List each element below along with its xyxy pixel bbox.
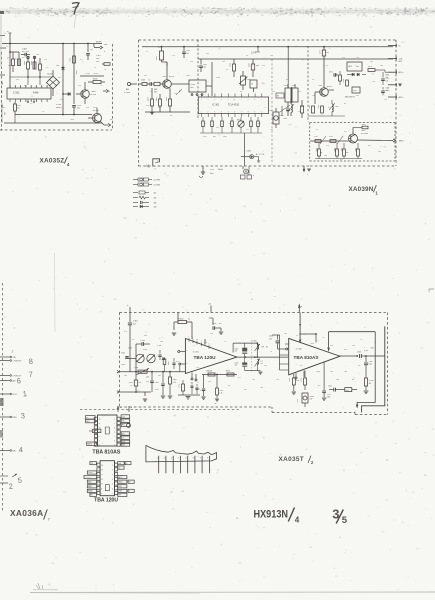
svg-text:TBA 120U: TBA 120U [94,497,118,503]
svg-text:2: 2 [112,470,113,472]
svg-text:12: 12 [101,474,103,476]
svg-text:5k6: 5k6 [258,123,261,125]
svg-text:L306: L306 [335,106,339,108]
svg-text:R311: R311 [335,73,337,77]
svg-text:R3: R3 [246,55,248,57]
svg-text:8: 8 [99,436,100,438]
svg-text:1k: 1k [296,335,298,337]
svg-text:5: 5 [186,458,187,460]
svg-text:C3: C3 [150,91,152,93]
svg-text:10k: 10k [146,377,149,379]
svg-text:12: 12 [99,419,101,421]
svg-text:10k: 10k [378,151,381,153]
svg-text:R305: R305 [165,97,167,101]
svg-text:n47: n47 [219,323,222,325]
svg-text:5k6: 5k6 [336,379,339,381]
svg-text:4: 4 [295,516,300,525]
svg-text:91,5kHz: 91,5kHz [124,92,130,94]
svg-text:22k: 22k [312,95,315,97]
svg-text:MIKR: MIKR [118,491,121,493]
svg-text:C317: C317 [269,110,273,112]
svg-text:4: 4 [67,162,70,168]
svg-text:22k: 22k [356,57,359,59]
svg-text:461: 461 [154,193,157,195]
svg-text:R3: R3 [300,365,302,367]
svg-text:C314: C314 [386,90,390,92]
svg-text:C 303: C 303 [140,340,145,342]
svg-text:7: 7 [114,445,115,447]
svg-text:C HORCUP: C HORCUP [13,360,22,362]
svg-text:b: b [131,407,132,409]
svg-text:n40: n40 [235,365,238,367]
svg-text:2n2: 2n2 [16,79,19,81]
svg-text:4: 4 [206,342,207,344]
svg-text:4: 4 [112,479,113,481]
svg-text:C302: C302 [186,50,190,52]
svg-text:C31: C31 [44,59,47,61]
svg-text:R313: R313 [368,66,372,68]
svg-text:C322: C322 [328,386,332,388]
svg-text:TBA 810AS: TBA 810AS [294,355,319,360]
svg-text:6048S: 6048S [56,107,62,109]
svg-text:+UB: +UB [118,463,121,465]
svg-text:TCA 4510: TCA 4510 [228,104,240,107]
svg-text:C3: C3 [312,79,314,81]
svg-text:R306: R306 [30,61,32,65]
svg-text:XA035T: XA035T [279,456,305,463]
svg-text:91,5: 91,5 [0,90,2,94]
svg-text:ELN: ELN [122,433,125,435]
svg-text:6: 6 [114,440,115,442]
svg-text:10n: 10n [203,67,206,69]
svg-text:1k: 1k [188,319,190,321]
svg-text:C306: C306 [248,63,250,67]
svg-text:R3: R3 [130,385,132,387]
svg-text:C3: C3 [286,111,288,113]
svg-text:RK1: RK1 [86,421,89,423]
svg-text:22k: 22k [276,379,279,381]
svg-text:2: 2 [318,340,319,342]
svg-text:MHZ 468 TR: MHZ 468 TR [345,97,355,99]
svg-text:C303: C303 [141,80,145,82]
svg-text:4: 4 [178,458,179,460]
svg-text:R3: R3 [277,96,279,98]
svg-text:470: 470 [342,57,345,59]
svg-text:10k: 10k [222,61,225,63]
svg-text:0,47: 0,47 [269,339,272,341]
svg-text:C307: C307 [155,389,159,391]
svg-text:XA035Z: XA035Z [40,157,65,164]
svg-text:79L477: 79L477 [93,73,99,75]
svg-text:7: 7 [112,493,113,495]
svg-text:R310: R310 [226,371,230,373]
svg-text:C31: C31 [90,49,93,51]
svg-text:KF 91: KF 91 [13,394,17,396]
svg-text:NF: NF [91,495,93,497]
svg-text:C318: C318 [314,136,318,138]
svg-text:470: 470 [60,99,63,101]
svg-text:1n5: 1n5 [216,127,219,129]
svg-text:100u: 100u [280,115,284,117]
svg-text:100n: 100n [70,119,74,121]
svg-text:R303: R303 [93,79,97,81]
svg-text:AF1 o: AF1 o [399,71,404,74]
svg-text:C308: C308 [283,118,287,120]
svg-text:1n5: 1n5 [252,379,255,381]
svg-text:R3: R3 [226,69,228,71]
svg-text:C312: C312 [386,78,390,80]
svg-text:MIF: MIF [118,495,121,497]
svg-text:4,7k: 4,7k [173,382,176,384]
svg-text:2: 2 [114,423,115,425]
svg-text:o: o [104,51,105,53]
svg-text:T3: T3 [322,337,324,339]
svg-text:XA036A: XA036A [10,508,43,518]
svg-text:4: 4 [114,432,115,434]
svg-text:HX913N: HX913N [254,508,289,520]
svg-text:0,1: 0,1 [238,377,241,379]
svg-text:C306: C306 [129,382,133,384]
svg-text:2: 2 [164,458,165,460]
svg-text:1k2: 1k2 [17,108,20,110]
svg-text:1n: 1n [148,80,150,82]
svg-text:IC 302: IC 302 [296,349,303,351]
svg-text:14: 14 [101,465,103,467]
svg-text:C3: C3 [46,67,48,69]
svg-text:R322: R322 [354,148,356,152]
svg-text:R319: R319 [315,148,317,152]
svg-text:T3: T3 [80,59,82,61]
svg-text:6: 6 [99,445,100,447]
svg-text:C311: C311 [196,389,200,391]
svg-text:10k: 10k [260,387,263,389]
svg-text:4u7: 4u7 [24,85,27,87]
svg-text:1,2k: 1,2k [220,393,223,395]
svg-text:5: 5 [361,410,362,412]
svg-text:R304: R304 [143,349,147,351]
svg-text:100n: 100n [316,371,320,373]
svg-text:C304: C304 [155,97,157,101]
svg-text:3: 3 [112,474,113,476]
svg-text:0,1: 0,1 [240,91,242,93]
svg-text:T30: T30 [15,57,17,60]
svg-text:470: 470 [86,107,89,109]
svg-text:AFC: AFC [349,65,353,68]
svg-text:C3: C3 [6,46,8,48]
svg-text:C31: C31 [384,99,387,101]
svg-text:4: 4 [129,491,130,493]
svg-text:1n5: 1n5 [284,333,287,335]
svg-text:462: 462 [154,198,157,200]
svg-text:10n: 10n [324,155,327,157]
svg-text:R31: R31 [368,145,371,147]
svg-text:n.c: n.c [86,417,88,419]
svg-text:100n: 100n [369,364,373,366]
svg-text:C 502: C 502 [13,92,20,95]
svg-text:R31: R31 [344,349,347,351]
svg-text:R 306: R 306 [369,380,374,382]
svg-text:22k: 22k [372,81,375,83]
svg-text:R301: R301 [69,58,71,62]
svg-text:4u7: 4u7 [244,389,247,391]
svg-text:R1: R1 [7,57,9,59]
svg-text:10n: 10n [270,55,273,57]
svg-text:C317: C317 [296,399,298,403]
svg-text:4,7: 4,7 [260,361,262,363]
svg-text:5k6: 5k6 [146,381,149,383]
svg-text:7: 7 [200,458,201,460]
svg-text:7: 7 [190,382,191,384]
svg-text:10k: 10k [160,341,163,343]
svg-text:150n: 150n [121,364,125,366]
svg-text:R307: R307 [229,63,231,67]
svg-text:L302: L302 [128,348,132,350]
svg-text:1n5: 1n5 [158,107,161,109]
svg-text:22k: 22k [228,123,231,125]
svg-text:10n: 10n [352,345,355,347]
svg-text:C310: C310 [319,50,321,54]
svg-text:C31: C31 [196,367,199,369]
svg-text:R31: R31 [176,361,179,363]
svg-text:Hz: Hz [266,347,268,349]
svg-text:R3: R3 [158,47,160,49]
svg-text:5k6: 5k6 [124,375,127,377]
svg-text:R312: R312 [220,390,224,392]
svg-text:10k: 10k [36,54,39,56]
svg-text:C315: C315 [203,136,207,138]
svg-text:C-HORCUP: C-HORCUP [85,477,92,479]
svg-text:56k: 56k [320,152,323,154]
svg-text:IL-OFW: IL-OFW [154,180,161,182]
svg-text:56k: 56k [344,371,347,373]
svg-text:R 302: R 302 [178,319,184,321]
svg-text:R3: R3 [358,365,360,367]
svg-text:10k: 10k [190,61,193,63]
svg-text:1k: 1k [298,111,300,113]
svg-text:8: 8 [187,363,188,365]
svg-text:10: 10 [101,484,103,486]
svg-text:R305: R305 [288,378,290,382]
svg-text:470: 470 [262,65,265,67]
svg-text:KF: KF [129,481,131,483]
svg-text:0,1: 0,1 [326,65,328,67]
svg-text:1: 1 [157,458,158,460]
svg-text:R31: R31 [340,159,343,161]
svg-text:C319: C319 [329,136,333,138]
svg-text:C31: C31 [262,83,265,85]
svg-text:C319: C319 [327,394,331,396]
svg-text:MIF L: MIF L [13,450,17,452]
svg-text:T300a: T300a [91,91,96,93]
svg-text:C314: C314 [75,70,77,74]
svg-text:5: 5 [112,484,113,486]
svg-text:C31: C31 [172,55,175,57]
svg-text:22k: 22k [270,129,273,131]
svg-text:1: 1 [112,465,113,467]
svg-text:5u6: 5u6 [386,81,389,83]
svg-text:8: 8 [101,493,102,495]
svg-text:40u: 40u [256,65,259,67]
svg-text:464: 464 [154,207,157,209]
svg-text:1k: 1k [146,51,148,53]
svg-text:T3: T3 [270,351,272,353]
svg-text:R315: R315 [237,120,241,122]
svg-text:470: 470 [78,85,81,87]
svg-text:R31: R31 [206,53,209,55]
svg-text:L303: L303 [284,85,288,87]
svg-text:TBA 120U: TBA 120U [194,355,217,360]
svg-text:C311: C311 [329,72,333,74]
svg-text:100n: 100n [310,343,314,345]
svg-text:R310: R310 [317,105,319,109]
svg-text:T3: T3 [100,85,102,87]
svg-text:1000u: 1000u [310,396,315,398]
svg-text:R3: R3 [228,385,230,387]
svg-text:11: 11 [99,423,101,425]
svg-text:9: 9 [187,350,188,352]
svg-text:o: o [253,175,254,177]
svg-text:D2: D2 [126,463,128,465]
svg-text:D301: D301 [247,151,252,153]
svg-text:AM: AM [1,82,4,85]
svg-text:4u7: 4u7 [133,324,136,326]
svg-text:465: 465 [191,87,194,89]
svg-text:u: u [307,174,308,176]
svg-text:AM: AM [126,88,129,91]
svg-text:4u7: 4u7 [327,52,330,54]
svg-text:Fu: Fu [110,119,112,121]
svg-text:10k: 10k [146,105,149,107]
svg-text:6: 6 [193,458,194,460]
svg-text:1k: 1k [316,129,318,131]
svg-text:n40: n40 [235,351,238,353]
svg-text:DrF: DrF [261,347,264,349]
svg-text:10k: 10k [174,93,177,95]
svg-text:C308: C308 [212,323,216,325]
svg-text:R321: R321 [340,148,342,152]
svg-text:C310: C310 [269,336,273,338]
svg-text:R308: R308 [300,378,302,382]
svg-text:22k: 22k [210,333,213,335]
svg-text:4u7: 4u7 [144,75,147,77]
svg-text:T304: T304 [318,85,322,87]
svg-text:D303: D303 [353,90,357,92]
svg-text:465: 465 [154,92,157,94]
svg-text:470: 470 [8,65,11,67]
svg-text:0,3V: 0,3V [3,112,5,115]
svg-text:S 304: S 304 [56,104,61,106]
svg-text:4: 4 [155,169,156,171]
svg-text:IL-OSW: IL-OSW [154,185,161,187]
svg-text:L 305: L 305 [252,340,256,342]
svg-text:5: 5 [114,436,115,438]
svg-text:12: 12 [197,382,199,384]
svg-text:T3: T3 [204,123,206,125]
svg-text:6: 6 [112,488,113,490]
svg-text:R314: R314 [386,75,390,77]
svg-text:C-K: C-K [122,438,125,440]
svg-text:C302: C302 [121,353,125,355]
svg-text:50u: 50u [77,108,80,110]
svg-text:7: 7 [99,440,100,442]
svg-text:OFW: OFW [191,84,196,86]
svg-text:C312: C312 [235,349,239,351]
svg-text:470: 470 [328,107,331,109]
svg-text:Tu: Tu [104,69,106,71]
svg-text:C304: C304 [386,88,390,90]
svg-text:13: 13 [101,470,103,472]
svg-text:R306: R306 [173,379,177,381]
svg-text:BC258: BC258 [93,110,99,112]
svg-text:R3: R3 [344,103,346,105]
svg-text:100n: 100n [216,77,220,79]
svg-text:T303: T303 [162,76,166,78]
svg-text:R31: R31 [356,95,359,97]
svg-text:10n: 10n [330,371,333,373]
svg-text:56k: 56k [380,65,383,67]
svg-text:C309: C309 [308,105,310,109]
svg-text:P304: P304 [134,367,138,369]
svg-text:L301: L301 [155,56,157,60]
svg-text:C31: C31 [208,381,211,383]
svg-text:100n: 100n [327,397,331,399]
svg-text:4u7 16V: 4u7 16V [22,51,29,53]
svg-text:10k: 10k [356,66,359,68]
svg-text:C313: C313 [235,363,239,365]
svg-text:A Y 1 0 7 E: A Y 1 0 7 E [256,153,265,156]
svg-text:T305: T305 [361,130,365,132]
svg-text:T3: T3 [94,67,96,69]
svg-text:T3: T3 [196,339,198,341]
svg-text:10n: 10n [330,345,333,347]
svg-text:C306: C306 [369,361,373,363]
svg-text:R304: R304 [147,97,149,101]
svg-text:T3: T3 [352,121,354,123]
svg-text:4348: 4348 [33,92,39,95]
svg-text:470: 470 [124,331,127,333]
svg-text:C-HOR: C-HOR [88,472,93,474]
svg-text:463: 463 [154,203,157,205]
svg-text:R316: R316 [362,124,366,126]
svg-text:IC 301: IC 301 [212,104,220,107]
svg-text:2n2: 2n2 [264,365,267,367]
svg-text:2u5: 2u5 [139,382,142,384]
svg-text:56k: 56k [144,335,147,337]
svg-text:R305: R305 [23,61,25,65]
svg-text:R312: R312 [342,79,344,83]
svg-text:BF194: BF194 [169,76,174,78]
svg-text:XA039N: XA039N [349,186,374,193]
svg-text:470: 470 [326,145,329,147]
svg-text:C 313: C 313 [85,73,90,75]
svg-text:MW 1: MW 1 [399,141,404,143]
svg-text:D30: D30 [56,65,59,67]
svg-text:C305: C305 [155,382,159,384]
svg-text:100n: 100n [186,75,190,77]
svg-text:C320: C320 [357,352,361,354]
svg-text:9: 9 [101,488,102,490]
svg-text:BC158B: BC158B [361,133,368,135]
svg-text:C3: C3 [360,339,362,341]
svg-text:4u7: 4u7 [346,390,349,392]
svg-text:BC348: BC348 [91,94,97,96]
svg-text:L 304: L 304 [157,345,161,347]
svg-text:1n5: 1n5 [298,91,301,93]
svg-text:5: 5 [342,515,348,526]
svg-text:+UB: +UB [122,416,125,418]
svg-text:2n2: 2n2 [158,375,161,377]
svg-text:3: 3 [171,458,172,460]
